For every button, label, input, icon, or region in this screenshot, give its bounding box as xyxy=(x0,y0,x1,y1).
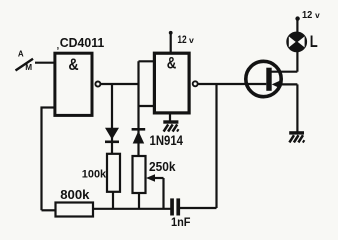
svg-text:1N914: 1N914 xyxy=(150,133,184,148)
svg-text:&: & xyxy=(167,53,177,72)
svg-text:v: v xyxy=(315,11,320,20)
svg-text:L: L xyxy=(310,33,318,51)
svg-text:100k: 100k xyxy=(82,168,107,180)
svg-text:1nF: 1nF xyxy=(171,216,191,229)
svg-text:CD4011: CD4011 xyxy=(60,35,104,50)
svg-text:v: v xyxy=(189,35,194,45)
svg-text:800k: 800k xyxy=(60,187,90,202)
svg-text:&: & xyxy=(68,55,78,74)
svg-text:M: M xyxy=(25,63,32,72)
svg-text:12: 12 xyxy=(177,34,186,46)
svg-text:,: , xyxy=(57,40,60,50)
svg-text:12: 12 xyxy=(302,10,313,21)
svg-text:A: A xyxy=(18,49,24,58)
svg-text:250k: 250k xyxy=(149,159,176,174)
